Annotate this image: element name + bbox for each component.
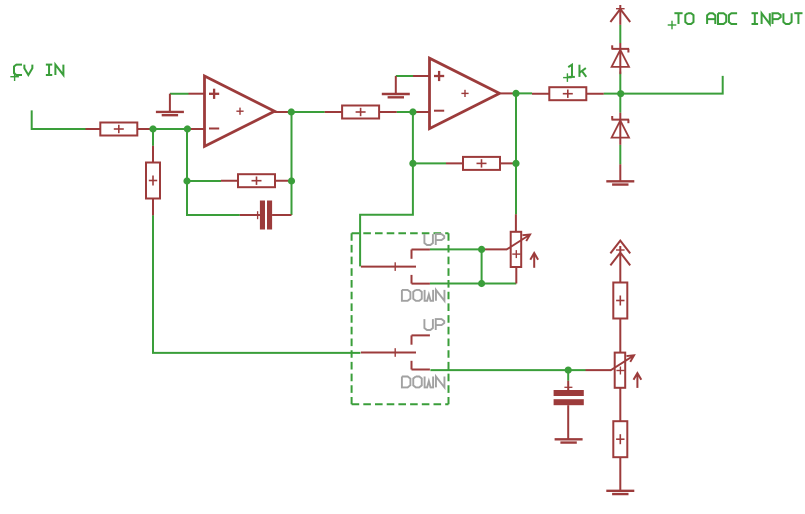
wire zener node to Z2 (619, 94, 621, 113)
supply arrow VCC top (610, 5, 630, 25)
op-amp U2 (413, 58, 513, 128)
switch S1 label DOWN (402, 290, 445, 301)
junction U1 output (288, 108, 295, 115)
wire P1 wiper link down (481, 249, 483, 283)
switch S2 label DOWN (402, 377, 445, 388)
supply arrow VCC right (610, 241, 630, 266)
resistor R1 (86, 123, 151, 136)
wire R8 to zener node (604, 76, 723, 94)
junction node C (409, 160, 416, 167)
wire R1 to node A (151, 128, 188, 130)
capacitor C1 (240, 201, 292, 230)
wire node A down to C1 (187, 129, 240, 215)
ground at U2 plus input (382, 76, 410, 97)
wire U1 out to R4 (288, 111, 324, 113)
switch S2 (361, 335, 430, 369)
switch S1 (361, 250, 430, 284)
wire CV IN stub (32, 110, 86, 129)
ground below Z2 (606, 164, 634, 184)
wire node C down to switch S1 pole (360, 163, 413, 266)
wire Z2 to ground (619, 145, 621, 165)
dashed selection box (352, 233, 449, 404)
wire node B to R3 (187, 180, 221, 182)
wire U2 out down to P1 top (515, 93, 517, 214)
wire C2 top stub (567, 370, 569, 381)
junction zener node (617, 90, 624, 97)
junction P1 bottom (478, 280, 485, 287)
junction U2 output (512, 90, 519, 97)
resistor R4 (325, 106, 397, 119)
junction C2 top (565, 367, 572, 374)
zener diode Z1 (612, 43, 630, 74)
wire Z1 to zener node (619, 72, 621, 94)
wire R4 to U2 inv (397, 111, 414, 113)
ground bottom right (606, 491, 634, 494)
net label CV IN (10, 65, 63, 81)
potentiometer P2 (586, 353, 635, 388)
switch S1 label UP (424, 234, 444, 245)
resistor R2 (146, 146, 160, 216)
junction node B2 (288, 177, 295, 184)
capacitor C2 (554, 381, 584, 439)
wire U2 inv down to R5 (413, 112, 446, 163)
wire S1 down throw to P1 bottom (430, 283, 516, 285)
junction U2 inverting (409, 108, 416, 115)
potentiometer P2 direction arrow (634, 373, 642, 388)
value label 1k (563, 65, 586, 82)
potentiometer P1 direction arrow (530, 253, 538, 268)
wire ground to U2 plus (396, 75, 414, 77)
resistor R6 (613, 246, 627, 353)
resistor R3 (221, 174, 292, 187)
net label TO ADC INPUT (668, 13, 803, 29)
resistor R7 (613, 388, 627, 491)
wire C1 right up to U1 out (291, 112, 293, 215)
ground at U1 plus input (156, 94, 184, 116)
switch S2 label UP (424, 319, 444, 330)
wire ground to U1 plus (170, 93, 189, 95)
junction R5 right (512, 160, 519, 167)
resistor R5 (446, 157, 517, 170)
op-amp U1 (189, 76, 289, 146)
wire S1 up throw to P1 wiper (430, 248, 483, 250)
wire S2 down throw to P2 wiper (430, 369, 585, 371)
potentiometer P1 (483, 214, 530, 283)
junction P1 wiper (478, 246, 485, 253)
wire node A to R2 (152, 129, 154, 146)
junction node A1 (149, 125, 156, 132)
wire R2 down to switch S2 pole (153, 215, 360, 353)
junction node A2 (184, 125, 191, 132)
resistor R8 1k (532, 87, 604, 100)
ground below C2 (555, 439, 583, 442)
junction node B1 (183, 177, 190, 184)
wire U2 out to R8 (513, 92, 532, 94)
zener diode Z2 (612, 113, 630, 145)
wire supply to Z1 (619, 25, 621, 43)
